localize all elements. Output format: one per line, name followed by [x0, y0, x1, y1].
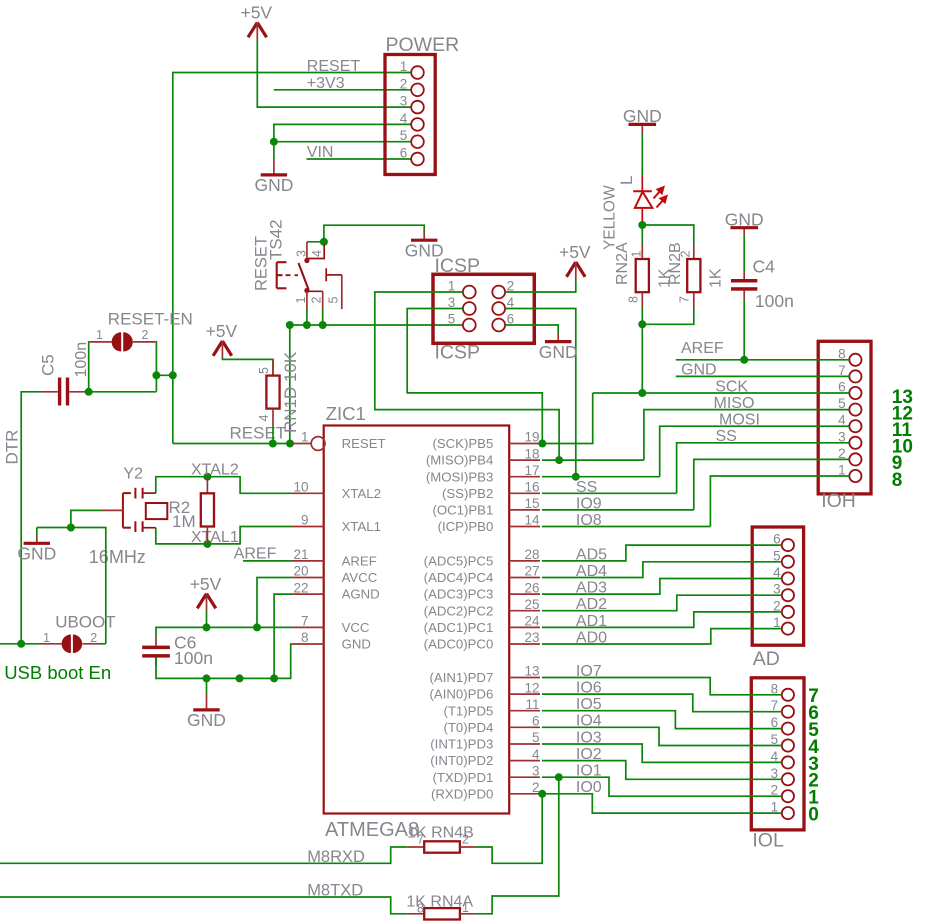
junction PB4 [555, 456, 563, 464]
svg-text:2: 2 [679, 251, 693, 258]
svg-text:5: 5 [257, 367, 271, 374]
label RESET [307, 58, 361, 75]
svg-text:(ADC0)PC0: (ADC0)PC0 [424, 637, 494, 652]
svg-text:8: 8 [417, 902, 424, 916]
svg-text:(ADC5)PC5: (ADC5)PC5 [424, 554, 494, 569]
svg-text:18: 18 [524, 446, 539, 461]
svg-text:14: 14 [524, 513, 540, 528]
label arduino pins 7-0 [808, 686, 819, 825]
wire AREF to IOH pin 8 [676, 359, 850, 361]
connector IOL [751, 678, 804, 852]
svg-text:RN2B: RN2B [667, 242, 684, 285]
svg-text:2: 2 [310, 297, 324, 304]
svg-text:XTAL1: XTAL1 [342, 519, 381, 534]
junction jumper [152, 371, 176, 379]
label IO7 [576, 663, 602, 680]
wire M8RXD [0, 847, 408, 863]
label GND net [681, 362, 717, 379]
ground crystal [17, 528, 56, 564]
junction C5 [85, 388, 93, 396]
svg-text:USB boot En: USB boot En [4, 662, 111, 683]
connector AD [752, 527, 803, 670]
svg-text:22: 22 [293, 580, 308, 595]
svg-text:3: 3 [295, 250, 309, 257]
wire RESET to ZIC1 pin 1 [173, 443, 291, 445]
svg-text:RESET: RESET [307, 58, 361, 75]
wire switch to ground [307, 225, 424, 242]
svg-text:15: 15 [524, 496, 539, 511]
svg-text:1M: 1M [172, 512, 196, 531]
svg-text:AVCC: AVCC [342, 570, 378, 585]
svg-text:(ADC2)PC2: (ADC2)PC2 [424, 603, 494, 618]
label IO8 [576, 512, 602, 529]
label USB boot En [4, 662, 111, 683]
label IO5 [576, 696, 602, 713]
svg-text:RN2A: RN2A [614, 242, 631, 285]
ground at C6 [187, 678, 226, 730]
svg-text:8: 8 [301, 630, 309, 645]
svg-text:(T0)PD4: (T0)PD4 [443, 720, 493, 735]
svg-text:ICSP: ICSP [435, 255, 481, 277]
label VIN [307, 144, 334, 161]
svg-text:XTAL2: XTAL2 [191, 461, 239, 478]
wire IO1 [542, 777, 782, 796]
svg-text:IO2: IO2 [576, 746, 602, 763]
svg-text:6: 6 [400, 146, 408, 161]
wire VCC [156, 627, 291, 638]
svg-text:1: 1 [43, 631, 50, 645]
label MOSI [719, 412, 760, 429]
label AD2 [576, 596, 607, 613]
capacitor C4 100n [731, 236, 794, 360]
svg-text:AREF: AREF [681, 340, 724, 357]
junction switch gnd [320, 238, 328, 246]
svg-text:7: 7 [301, 614, 309, 629]
svg-text:(ADC1)PC1: (ADC1)PC1 [424, 620, 494, 635]
svg-text:IO0: IO0 [576, 779, 602, 796]
svg-text:GND: GND [187, 710, 226, 730]
svg-text:+5V: +5V [190, 574, 222, 594]
svg-text:(T1)PD5: (T1)PD5 [443, 703, 493, 718]
ic ZIC1 ATMEGA8 [291, 403, 540, 841]
svg-text:7: 7 [678, 296, 692, 303]
label XTAL1 [191, 529, 239, 546]
junction VCC [203, 623, 262, 631]
svg-text:(MOSI)PB3: (MOSI)PB3 [426, 469, 493, 484]
svg-text:100n: 100n [755, 291, 794, 311]
svg-text:+5V: +5V [240, 3, 272, 23]
svg-text:L: L [617, 176, 636, 185]
wire M8TXD [0, 897, 408, 914]
svg-text:SS: SS [716, 428, 737, 445]
wire RESET to POWER pin 1 [173, 73, 411, 444]
svg-text:5: 5 [327, 297, 341, 304]
wire C5 left to DTR [21, 392, 41, 644]
svg-text:(SCK)PB5: (SCK)PB5 [432, 436, 493, 451]
wire AD3 [542, 579, 782, 595]
svg-text:UBOOT: UBOOT [55, 612, 115, 631]
svg-text:21: 21 [293, 547, 308, 562]
svg-text:(AIN1)PD7: (AIN1)PD7 [430, 670, 494, 685]
svg-text:9: 9 [301, 513, 309, 528]
wire DTR to UBOOT [0, 643, 39, 645]
svg-text:ICSP: ICSP [435, 342, 481, 364]
svg-text:5: 5 [400, 128, 408, 143]
svg-text:IO3: IO3 [576, 729, 602, 746]
svg-text:12: 12 [524, 680, 539, 695]
label M8RXD [307, 848, 365, 866]
wire IO2 [542, 761, 782, 780]
svg-text:19: 19 [524, 430, 539, 445]
jumper RESET-EN [90, 310, 193, 352]
ground above LED [623, 106, 662, 133]
svg-text:1: 1 [462, 901, 469, 915]
wire RN4B to PD0 [476, 794, 543, 864]
svg-text:AD5: AD5 [576, 546, 607, 563]
junction POWER gnd [270, 138, 278, 146]
svg-text:AD0: AD0 [576, 629, 607, 646]
svg-text:8: 8 [892, 470, 903, 491]
wire PB5 SCK [542, 393, 593, 444]
junction PB3 [572, 473, 580, 481]
svg-text:(ADC4)PC4: (ADC4)PC4 [424, 570, 494, 585]
wire IO7 [542, 678, 782, 695]
wire AD2 [542, 595, 782, 611]
svg-text:GND: GND [342, 637, 371, 652]
wire +5V to ICSP pin 2 [505, 279, 576, 292]
wire GND to IOH pin 7 [676, 375, 850, 377]
wire crystal case to gnd [71, 510, 102, 527]
label AD1 [576, 613, 607, 630]
junction DTR [17, 640, 25, 648]
svg-text:AD2: AD2 [576, 596, 607, 613]
junction PD0 [538, 790, 546, 798]
wire GND bottom [156, 644, 291, 678]
svg-text:(TXD)PD1: (TXD)PD1 [432, 770, 493, 785]
wire RN4A to PD1 [476, 777, 559, 914]
svg-text:6: 6 [532, 714, 540, 729]
svg-text:GND: GND [725, 210, 764, 230]
wire MOSI icsp [505, 309, 576, 477]
label IO3 [576, 729, 602, 746]
svg-text:2: 2 [90, 631, 97, 645]
label MISO [714, 395, 755, 412]
svg-text:AREF: AREF [234, 545, 277, 562]
svg-text:2: 2 [400, 76, 408, 91]
svg-text:RESET: RESET [342, 436, 386, 451]
svg-text:IO6: IO6 [576, 680, 602, 697]
resistor RN2B 1K [642, 225, 724, 324]
wire AREF [243, 560, 291, 562]
junction PD1 [555, 773, 563, 781]
wire PB4 MISO [542, 459, 644, 461]
wire IO0 [542, 794, 782, 813]
wire VIN to POWER pin 6 [307, 158, 412, 160]
svg-text:XTAL1: XTAL1 [191, 529, 239, 546]
connector POWER [385, 34, 459, 175]
svg-text:(ICP)PB0: (ICP)PB0 [438, 519, 494, 534]
svg-text:IO7: IO7 [576, 663, 602, 680]
svg-text:16MHz: 16MHz [89, 547, 146, 567]
svg-text:VIN: VIN [307, 144, 334, 161]
svg-text:GND: GND [681, 362, 717, 379]
resistor R2 1M [169, 477, 215, 544]
svg-text:4: 4 [310, 250, 324, 257]
wire AGND [274, 594, 291, 678]
wire MOSI to IOH pin 4 [660, 426, 850, 477]
svg-text:AD3: AD3 [576, 580, 607, 597]
connector IOH [818, 341, 871, 512]
svg-text:POWER: POWER [386, 34, 460, 56]
svg-text:25: 25 [524, 597, 539, 612]
label arduino pins 13-8 [892, 387, 913, 491]
junction SCK led [638, 389, 646, 397]
svg-text:SCK: SCK [715, 378, 748, 395]
svg-text:(INT1)PD3: (INT1)PD3 [430, 737, 493, 752]
wire XTAL2 node [156, 477, 291, 494]
junction gnd bottom [203, 674, 279, 682]
svg-text:AD1: AD1 [576, 613, 607, 630]
svg-text:AD4: AD4 [576, 563, 607, 580]
junction xtal [203, 473, 211, 548]
svg-text:1: 1 [294, 297, 308, 304]
svg-text:1: 1 [630, 251, 644, 258]
wire gnd to LED [641, 133, 643, 175]
wire PB3 MOSI [542, 476, 660, 478]
label SS at IOH [716, 428, 737, 445]
resistor RN2A 1K [614, 225, 674, 324]
wire RESET net to ICSP pin 5 [290, 324, 463, 326]
power +5V at RN1D [206, 321, 238, 358]
svg-text:+3V3: +3V3 [307, 75, 345, 92]
svg-text:RESET: RESET [230, 423, 287, 442]
wire IO4 [542, 727, 782, 745]
svg-text:IOH: IOH [821, 490, 856, 512]
svg-text:3: 3 [400, 94, 408, 109]
svg-text:2: 2 [462, 833, 469, 847]
svg-text:MISO: MISO [714, 395, 755, 412]
wire AVCC [257, 578, 291, 628]
svg-text:AGND: AGND [342, 587, 380, 602]
svg-text:4: 4 [400, 111, 408, 126]
svg-text:28: 28 [524, 547, 539, 562]
label IO1 [576, 763, 602, 780]
connector ICSP [433, 255, 534, 364]
wire IO9 to IOH pin 2 [694, 459, 850, 510]
svg-text:100n: 100n [174, 648, 213, 668]
svg-text:IO8: IO8 [576, 512, 602, 529]
wire XTAL1 node [156, 527, 291, 544]
wire PB0 IO8 [542, 526, 711, 528]
label AD5 [576, 546, 607, 563]
wire RN2 to SCK [641, 324, 643, 393]
svg-text:C5: C5 [39, 354, 58, 376]
wire IO5 [542, 711, 782, 729]
pushbutton S1 TS42 [253, 219, 342, 325]
wire jumper pin1 down [89, 342, 90, 392]
wire ICSP pin 6 to gnd [505, 325, 558, 333]
label SS at PB2 [576, 479, 597, 496]
wire AD5 [542, 545, 782, 561]
power +5V at VCC [190, 574, 222, 611]
label IO4 [576, 713, 602, 730]
svg-text:RN1D 10K: RN1D 10K [281, 351, 300, 433]
junction AREF C4 [740, 356, 748, 364]
svg-text:1: 1 [96, 328, 103, 342]
wire reset riser [289, 325, 291, 444]
label AREF net [234, 545, 277, 562]
svg-text:7: 7 [417, 833, 424, 847]
label IO2 [576, 746, 602, 763]
wire case to UBOOT pin 2 [71, 528, 106, 644]
wire AD0 [542, 629, 782, 644]
label XTAL2 [191, 461, 239, 478]
svg-text:5: 5 [532, 730, 540, 745]
resistor RN1D 10K [257, 351, 300, 443]
svg-text:VCC: VCC [342, 620, 370, 635]
svg-text:SS: SS [576, 479, 597, 496]
svg-text:16: 16 [524, 480, 539, 495]
svg-text:20: 20 [293, 564, 308, 579]
svg-text:IOL: IOL [752, 829, 784, 851]
wire case gnd left [37, 527, 71, 529]
svg-text:+5V: +5V [559, 242, 591, 262]
svg-text:(INT0)PD2: (INT0)PD2 [430, 753, 493, 768]
label RESET net [230, 423, 287, 442]
wire PB1 IO9 [542, 509, 694, 511]
junction case [67, 524, 75, 532]
label +3V3 [307, 75, 345, 92]
svg-text:TS42: TS42 [267, 219, 286, 260]
wire PB2 SS [542, 492, 677, 494]
svg-text:(AIN0)PD6: (AIN0)PD6 [430, 687, 494, 702]
svg-text:(MISO)PB4: (MISO)PB4 [426, 453, 493, 468]
svg-text:(ADC3)PC3: (ADC3)PC3 [424, 587, 494, 602]
label IO0 [576, 779, 602, 796]
label M8TXD [307, 881, 363, 899]
wire POWER pin 4 [274, 124, 411, 141]
jumper UBOOT [39, 612, 116, 653]
svg-text:24: 24 [524, 614, 540, 629]
label AD4 [576, 563, 607, 580]
svg-text:IO4: IO4 [576, 713, 602, 730]
svg-text:RESET-EN: RESET-EN [108, 310, 193, 329]
label IO9 [576, 495, 602, 512]
wire IO8 to IOH pin 1 [710, 476, 849, 527]
wire jumper to reset riser [156, 374, 172, 376]
svg-text:1: 1 [400, 59, 408, 74]
svg-text:17: 17 [524, 463, 539, 478]
capacitor C6 100n [142, 633, 213, 668]
junction LED cathode [638, 221, 646, 229]
label AREF at IOH [681, 340, 724, 357]
junction RESET wire [269, 440, 294, 448]
label SCK [715, 378, 748, 395]
svg-text:AD: AD [753, 648, 780, 670]
svg-text:GND: GND [623, 106, 662, 126]
svg-text:MOSI: MOSI [719, 412, 760, 429]
led L YELLOW [602, 175, 667, 250]
wire C5 right [86, 391, 157, 393]
svg-text:ATMEGA8: ATMEGA8 [325, 819, 419, 841]
svg-text:5: 5 [448, 312, 456, 327]
wire jumper pin2 down [155, 342, 156, 392]
wire MISO to IOH pin 5 [644, 410, 849, 461]
svg-text:10: 10 [293, 480, 308, 495]
junction RN2 bottom [638, 320, 646, 328]
svg-text:YELLOW: YELLOW [602, 185, 619, 250]
svg-text:IO5: IO5 [576, 696, 602, 713]
svg-text:M8RXD: M8RXD [307, 848, 365, 866]
wire MISO icsp [375, 292, 559, 460]
svg-text:1: 1 [301, 430, 309, 445]
svg-text:IO9: IO9 [576, 495, 602, 512]
svg-text:3: 3 [532, 763, 540, 778]
ground above C4 [725, 210, 764, 237]
power +5V symbol [240, 3, 272, 40]
resistor RN4A 1K [406, 894, 475, 920]
junction PB5 [538, 440, 546, 448]
wire SCK icsp [407, 309, 542, 444]
svg-text:23: 23 [524, 630, 539, 645]
label IO6 [576, 680, 602, 697]
wire AD1 [542, 612, 782, 628]
ground POWER [254, 142, 293, 196]
svg-text:DTR: DTR [3, 430, 22, 465]
capacitor C5 100n [39, 342, 91, 406]
crystal Y2 16MHz [89, 465, 168, 567]
wire AD4 [542, 562, 782, 578]
power +5V at ICSP [559, 242, 591, 279]
svg-text:26: 26 [524, 580, 539, 595]
svg-text:1K: 1K [708, 268, 725, 288]
svg-text:M8TXD: M8TXD [307, 881, 363, 899]
svg-text:ZIC1: ZIC1 [326, 403, 366, 424]
svg-text:27: 27 [524, 564, 539, 579]
svg-text:IO1: IO1 [576, 763, 602, 780]
svg-text:2: 2 [142, 328, 149, 342]
svg-text:4: 4 [532, 747, 540, 762]
svg-text:AREF: AREF [342, 554, 377, 569]
svg-text:11: 11 [525, 697, 539, 712]
svg-text:8: 8 [627, 296, 641, 303]
wire SCK to IOH pin 6 [593, 392, 850, 394]
wire +5V to VCC [206, 611, 208, 628]
svg-text:GND: GND [539, 342, 578, 362]
wire POWER pin 5 [274, 141, 411, 143]
wire +5V to RN1D [222, 358, 273, 376]
junction reset row [286, 321, 327, 329]
svg-text:(SS)PB2: (SS)PB2 [442, 486, 493, 501]
label AD0 [576, 629, 607, 646]
label AD3 [576, 580, 607, 597]
wire +3V3 to POWER pin 2 [274, 89, 412, 91]
svg-text:(OC1)PB1: (OC1)PB1 [432, 503, 493, 518]
wire IO3 [542, 744, 782, 762]
svg-text:XTAL2: XTAL2 [342, 486, 381, 501]
svg-text:100n: 100n [73, 342, 90, 378]
svg-text:C4: C4 [753, 256, 776, 276]
svg-text:0: 0 [808, 805, 819, 826]
svg-text:4: 4 [257, 415, 271, 422]
ground at switch [405, 231, 444, 261]
wire SS to IOH pin 3 [677, 443, 850, 494]
wire +5V to POWER pin 3 [257, 40, 411, 108]
resistor RN4B 1K [407, 824, 476, 852]
svg-text:(RXD)PD0: (RXD)PD0 [431, 786, 493, 801]
wire IO6 [542, 694, 782, 712]
svg-text:13: 13 [524, 664, 539, 679]
